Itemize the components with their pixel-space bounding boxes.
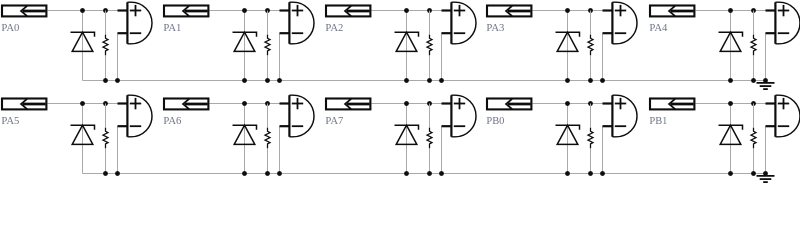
junction: U3 inverting input to ground rail — [439, 78, 444, 83]
wire: comparator U10 inverting input to rail — [765, 126, 767, 173]
resistor R1 — [103, 35, 108, 56]
wire: diode D4 branch to rail — [567, 11, 569, 81]
junction: PA4 / D5 anode tap — [728, 8, 733, 13]
junction: U10 inverting input to ground rail — [763, 171, 768, 176]
connector J5 (net PA4) — [650, 6, 694, 17]
wire: R9 top lead — [590, 104, 592, 128]
wire: R4 top lead — [590, 11, 592, 35]
wire: R2 top lead — [267, 11, 269, 35]
junction: R8 to ground rail — [427, 171, 432, 176]
junction: PA6 / D7 anode tap — [242, 101, 247, 106]
junction: U8 inverting input to ground rail — [439, 171, 444, 176]
connector J8 (net PA7) — [326, 99, 370, 110]
wire: R2 bottom lead to rail — [267, 55, 269, 80]
zener diode D6 — [71, 125, 95, 144]
connector J3 (net PA2) — [326, 6, 370, 17]
zener diode D3 — [395, 32, 419, 51]
connector J9 (net PB0) — [487, 99, 531, 110]
wire: diode D6 branch to rail — [82, 104, 84, 174]
wire PB1: connector to comparator — [695, 103, 765, 105]
resistor R7 — [265, 128, 270, 149]
junction: R1 to ground rail — [103, 78, 108, 83]
junction: D8 to ground rail — [404, 171, 409, 176]
junction: D7 to ground rail — [242, 171, 247, 176]
junction: PA2 / D3 anode tap — [404, 8, 409, 13]
svg-text:PA3: PA3 — [486, 22, 504, 34]
wire: comparator U1 inverting input to rail — [117, 33, 119, 80]
junction: PA0 / R1 tap — [103, 8, 108, 13]
wire: R3 top lead — [429, 11, 431, 35]
zener diode D9 — [556, 125, 580, 144]
junction: U6 inverting input to ground rail — [115, 171, 120, 176]
svg-text:PB0: PB0 — [486, 115, 504, 127]
junction: R9 to ground rail — [588, 171, 593, 176]
svg-text:PB1: PB1 — [649, 115, 667, 127]
junction: R4 to ground rail — [588, 78, 593, 83]
junction: D3 to ground rail — [404, 78, 409, 83]
wire: R6 top lead — [105, 104, 107, 128]
wire: diode D10 branch to rail — [730, 104, 732, 174]
wire: diode D1 branch to rail — [82, 11, 84, 81]
wire: R8 top lead — [429, 104, 431, 128]
wire: diode D8 branch to rail — [406, 104, 408, 174]
wire: R7 top lead — [267, 104, 269, 128]
wire: comparator U5 inverting input to rail — [765, 33, 767, 80]
comparator U7 — [280, 95, 315, 137]
wire PA6: connector to comparator — [209, 103, 279, 105]
junction: U1 inverting input to ground rail — [115, 78, 120, 83]
resistor R10 — [751, 128, 756, 149]
wire: R1 bottom lead to rail — [105, 55, 107, 80]
wire: comparator U2 inverting input to rail — [279, 33, 281, 80]
zener diode D4 — [556, 32, 580, 51]
connector J10 (net PB1) — [650, 99, 694, 110]
ground rail row 1 (GND net) — [83, 80, 766, 82]
wire: R7 bottom lead to rail — [267, 148, 269, 173]
junction: PB0 / D9 anode tap — [565, 101, 570, 106]
wire PA4: connector to comparator — [695, 10, 765, 12]
resistor R2 — [265, 35, 270, 56]
junction: R7 to ground rail — [265, 171, 270, 176]
junction: PA7 / D8 anode tap — [404, 101, 409, 106]
svg-text:PA0: PA0 — [1, 22, 19, 34]
resistor R5 — [751, 35, 756, 56]
ground symbol row 1 — [757, 81, 775, 90]
connector J7 (net PA6) — [164, 99, 208, 110]
wire: diode D7 branch to rail — [244, 104, 246, 174]
junction: R6 to ground rail — [103, 171, 108, 176]
wire PA7: connector to comparator — [371, 103, 441, 105]
wire: comparator U3 inverting input to rail — [441, 33, 443, 80]
wire: R1 top lead — [105, 11, 107, 35]
wire: comparator U4 inverting input to rail — [602, 33, 604, 80]
comparator U5 — [766, 2, 800, 44]
connector J2 (net PA1) — [164, 6, 208, 17]
comparator U9 — [603, 95, 638, 137]
junction: PA4 / R5 tap — [751, 8, 756, 13]
junction: R5 to ground rail — [751, 78, 756, 83]
junction: D9 to ground rail — [565, 171, 570, 176]
junction: U7 inverting input to ground rail — [277, 171, 282, 176]
svg-text:PA1: PA1 — [163, 22, 181, 34]
connector J6 (net PA5) — [2, 99, 46, 110]
svg-text:PA5: PA5 — [1, 115, 19, 127]
junction: PB1 / D10 anode tap — [728, 101, 733, 106]
wire: comparator U8 inverting input to rail — [441, 126, 443, 173]
wire: diode D5 branch to rail — [730, 11, 732, 81]
junction: PA3 / R4 tap — [588, 8, 593, 13]
comparator U3 — [442, 2, 476, 44]
junction: PA2 / R3 tap — [427, 8, 432, 13]
wire PB0: connector to comparator — [532, 103, 602, 105]
junction: PA1 / D2 anode tap — [242, 8, 247, 13]
junction: PA1 / R2 tap — [265, 8, 270, 13]
svg-text:PA7: PA7 — [325, 115, 343, 127]
junction: U2 inverting input to ground rail — [277, 78, 282, 83]
ground rail row 2 (GND net) — [83, 173, 766, 175]
wire: diode D3 branch to rail — [406, 11, 408, 81]
junction: PA3 / D4 anode tap — [565, 8, 570, 13]
svg-text:PA2: PA2 — [325, 22, 343, 34]
junction: U5 inverting input to ground rail — [763, 78, 768, 83]
junction: D10 to ground rail — [728, 171, 733, 176]
junction: R2 to ground rail — [265, 78, 270, 83]
junction: PB1 / R10 tap — [751, 101, 756, 106]
wire PA0: connector to comparator — [47, 10, 117, 12]
wire: R5 top lead — [753, 11, 755, 35]
wire PA1: connector to comparator — [209, 10, 279, 12]
wire: R10 bottom lead to rail — [753, 148, 755, 173]
wire: R6 bottom lead to rail — [105, 148, 107, 173]
zener diode D8 — [395, 125, 419, 144]
junction: PA5 / D6 anode tap — [80, 101, 85, 106]
wire: R8 bottom lead to rail — [429, 148, 431, 173]
junction: R10 to ground rail — [751, 171, 756, 176]
junction: D4 to ground rail — [565, 78, 570, 83]
resistor R6 — [103, 128, 108, 149]
zener diode D5 — [719, 32, 743, 51]
wire PA2: connector to comparator — [371, 10, 441, 12]
comparator U8 — [442, 95, 477, 137]
comparator U6 — [118, 95, 153, 137]
resistor R3 — [427, 35, 432, 56]
connector J4 (net PA3) — [487, 6, 531, 17]
wire: comparator U9 inverting input to rail — [602, 126, 604, 173]
junction: PB0 / R9 tap — [588, 101, 593, 106]
svg-text:PA4: PA4 — [649, 22, 667, 34]
junction: D5 to ground rail — [728, 78, 733, 83]
junction: U9 inverting input to ground rail — [600, 171, 605, 176]
resistor R8 — [427, 128, 432, 149]
comparator U4 — [603, 2, 637, 44]
wire: R4 bottom lead to rail — [590, 55, 592, 80]
wire: comparator U7 inverting input to rail — [279, 126, 281, 173]
junction: R3 to ground rail — [427, 78, 432, 83]
wire: R5 bottom lead to rail — [753, 55, 755, 80]
zener diode D10 — [719, 125, 743, 144]
wire: R3 bottom lead to rail — [429, 55, 431, 80]
zener diode D7 — [233, 125, 257, 144]
junction: U4 inverting input to ground rail — [600, 78, 605, 83]
junction: PA7 / R8 tap — [427, 101, 432, 106]
zener diode D1 — [71, 32, 95, 51]
junction: PA6 / R7 tap — [265, 101, 270, 106]
junction: D2 to ground rail — [242, 78, 247, 83]
wire: R9 bottom lead to rail — [590, 148, 592, 173]
resistor R4 — [588, 35, 593, 56]
wire: R10 top lead — [753, 104, 755, 128]
wire: diode D9 branch to rail — [567, 104, 569, 174]
wire: comparator U6 inverting input to rail — [117, 126, 119, 173]
junction: PA0 / D1 anode tap — [80, 8, 85, 13]
comparator U2 — [280, 2, 314, 44]
connector J1 (net PA0) — [2, 6, 46, 17]
zener diode D2 — [233, 32, 257, 51]
resistor R9 — [588, 128, 593, 149]
comparator U1 — [118, 2, 152, 44]
ground symbol row 2 — [757, 174, 775, 183]
wire: diode D2 branch to rail — [244, 11, 246, 81]
junction: PA5 / R6 tap — [103, 101, 108, 106]
svg-text:PA6: PA6 — [163, 115, 181, 127]
comparator U10 — [766, 95, 800, 137]
wire PA5: connector to comparator — [47, 103, 117, 105]
wire PA3: connector to comparator — [532, 10, 602, 12]
